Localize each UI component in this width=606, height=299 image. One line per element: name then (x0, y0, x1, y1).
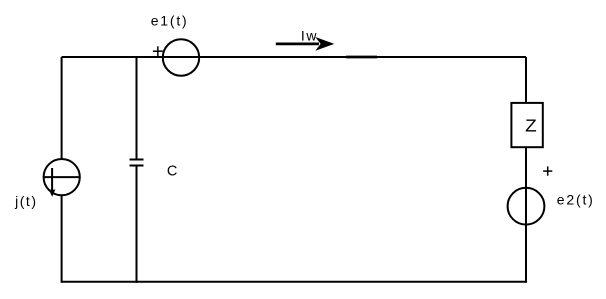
svg-text:j(t): j(t) (14, 193, 36, 209)
wire top overlap segment (346, 56, 377, 59)
polarity plus of e1(t) (153, 46, 163, 56)
svg-text:Z: Z (525, 115, 537, 135)
wire top horizontal (62, 56, 526, 58)
capacitor C (130, 160, 144, 166)
wire left vertical lower (61, 195, 63, 283)
voltage source e2(t) (508, 188, 545, 225)
wire capacitor branch lower (136, 166, 138, 283)
current source j(t) (44, 159, 80, 197)
wire bottom horizontal (62, 281, 526, 283)
current direction arrow Iw (276, 37, 335, 51)
wire left vertical upper (61, 57, 63, 159)
polarity plus of e2(t) (543, 166, 552, 175)
wire capacitor branch upper (136, 57, 138, 160)
voltage source e1(t) (163, 39, 199, 75)
wire right vertical upper (525, 57, 527, 103)
svg-text:Iw: Iw (301, 28, 317, 44)
svg-text:C: C (167, 164, 177, 180)
wire right vertical lower (525, 147, 527, 283)
impedance Z (511, 103, 542, 147)
